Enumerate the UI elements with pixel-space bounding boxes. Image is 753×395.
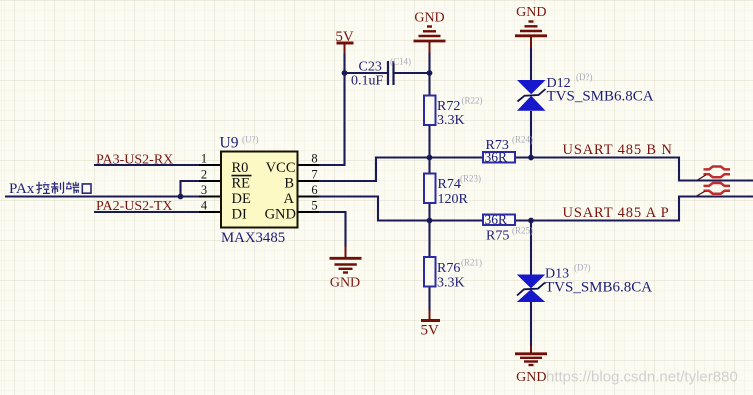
svg-text:8: 8 [311,152,317,166]
svg-text:5V: 5V [335,29,354,45]
svg-text:TVS_SMB6.8CA: TVS_SMB6.8CA [545,280,652,296]
svg-text:120R: 120R [438,192,469,207]
svg-text:R74: R74 [438,177,461,192]
svg-text:RE: RE [232,176,251,192]
svg-text:GND: GND [414,10,444,25]
svg-text:5: 5 [311,199,317,213]
svg-text:36R: 36R [485,149,508,164]
svg-text:USART 485 A P: USART 485 A P [563,205,670,221]
svg-text:(D?): (D?) [576,72,593,82]
svg-text:R75: R75 [486,229,509,244]
svg-text:PA2-US2-TX: PA2-US2-TX [96,199,173,214]
svg-text:TVS_SMB6.8CA: TVS_SMB6.8CA [547,88,654,104]
svg-text:2: 2 [201,168,207,182]
svg-text:(C14): (C14) [390,57,411,67]
svg-text:https://blog.csdn.net/tyler880: https://blog.csdn.net/tyler880 [546,369,738,386]
svg-text:(U?): (U?) [242,135,259,145]
svg-text:1: 1 [201,152,207,166]
svg-text:(R25): (R25) [512,226,533,236]
svg-text:A: A [284,191,295,207]
svg-text:GND: GND [516,370,546,385]
svg-text:R76: R76 [437,261,460,276]
svg-text:7: 7 [311,168,317,182]
svg-text:U9: U9 [220,135,239,152]
svg-text:GND: GND [516,5,546,20]
svg-text:VCC: VCC [266,160,296,176]
svg-text:PA3-US2-RX: PA3-US2-RX [96,152,173,167]
svg-text:(R24): (R24) [512,135,533,145]
svg-text:4: 4 [201,199,208,213]
svg-text:R72: R72 [437,99,460,114]
svg-text:GND: GND [330,275,360,290]
svg-text:0.1uF: 0.1uF [351,74,384,89]
svg-text:MAX3485: MAX3485 [221,230,285,246]
svg-text:5V: 5V [421,323,440,339]
svg-text:(D?): (D?) [574,263,591,273]
svg-text:R0: R0 [232,160,249,176]
svg-text:GND: GND [265,206,296,222]
svg-text:3.3K: 3.3K [437,276,465,291]
svg-text:B: B [284,176,294,192]
svg-text:(R22): (R22) [462,96,483,106]
svg-text:6: 6 [311,183,317,197]
svg-text:3.3K: 3.3K [437,113,465,128]
svg-text:USART 485 B N: USART 485 B N [563,142,673,158]
svg-text:DI: DI [232,206,247,222]
svg-text:(R23): (R23) [460,174,481,184]
svg-text:36R: 36R [485,212,508,227]
svg-text:C23: C23 [359,60,382,75]
svg-text:DE: DE [232,191,251,207]
svg-text:PAx: PAx [9,181,35,197]
svg-text:(R21): (R21) [461,258,482,268]
svg-text:3: 3 [201,183,207,197]
